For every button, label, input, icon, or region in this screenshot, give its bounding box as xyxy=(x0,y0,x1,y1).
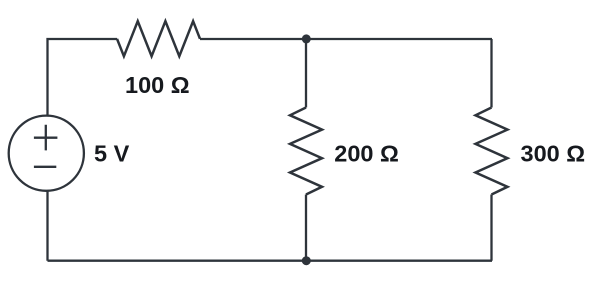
voltage source V1 circle xyxy=(9,116,84,191)
minus sign xyxy=(34,166,56,168)
resistor R2 200 ohm vertical xyxy=(290,108,322,195)
resistor R3 300 ohm vertical xyxy=(476,108,508,195)
wire middle vertical bottom stub xyxy=(305,195,307,261)
svg-text:5 V: 5 V xyxy=(94,141,130,167)
svg-text:200 Ω: 200 Ω xyxy=(334,141,399,167)
wire right vertical bottom stub xyxy=(490,195,492,261)
svg-text:300 Ω: 300 Ω xyxy=(521,141,586,167)
wire left vertical below source xyxy=(46,191,48,261)
wire top horizontal middle segment xyxy=(200,38,492,40)
node bottom junction dot xyxy=(302,256,311,265)
wire middle vertical top stub xyxy=(305,39,307,108)
wire right vertical top stub xyxy=(490,39,492,108)
svg-text:100 Ω: 100 Ω xyxy=(125,72,190,98)
wire bottom horizontal xyxy=(48,260,493,262)
node top junction dot xyxy=(302,34,311,43)
resistor R1 100 ohm horizontal xyxy=(117,21,200,56)
plus sign xyxy=(34,125,58,151)
wire top horizontal left segment xyxy=(48,39,118,116)
